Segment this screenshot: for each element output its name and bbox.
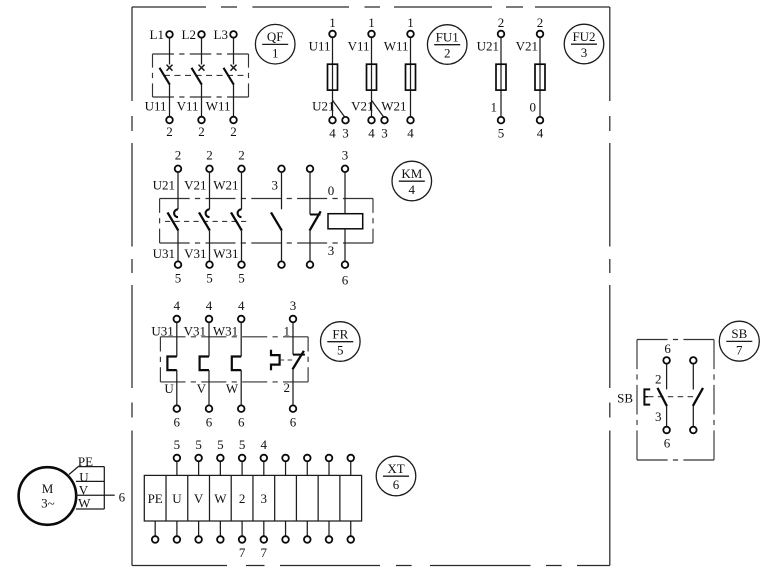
svg-text:1: 1 [284,323,291,338]
svg-text:W: W [214,491,227,506]
svg-text:6: 6 [119,489,126,504]
component label circle QF/1 [255,24,295,64]
terminal (wire 2) of fuse FU2-2 [537,15,544,37]
label wire 1 at FU2 [491,100,498,115]
terminal (wire 6) of FR heater 3 [238,405,245,429]
wire into KM main contact 1 [177,173,179,210]
label U21 at FU1 [312,99,334,114]
label U21 at KM [153,178,175,193]
svg-text:U21: U21 [312,99,334,114]
SB button actuator [644,389,650,404]
terminal W11 of QF (wire 2) [230,117,237,139]
wire through fuse FU2-1 [500,38,502,117]
branch wire at FU1-2 bottom [372,100,384,117]
top terminal of SB NO contact [690,357,697,364]
terminal (wire 2) of fuse FU2-1 [498,15,505,37]
KM main contact 2 [199,209,210,230]
svg-text:V21: V21 [184,178,206,193]
QF linkage (dashed mechanical link) [164,74,248,76]
svg-text:4: 4 [238,298,245,313]
svg-text:W31: W31 [213,246,238,261]
motor lead label PE [78,454,93,469]
terminal 1 of fuse FU1-3 [407,15,414,37]
svg-text:PE: PE [78,454,93,469]
svg-text:4: 4 [174,298,181,313]
label wire 3 at KM aux NO [272,178,279,193]
component label circle KM/4 [392,161,432,201]
XT top terminal 8 [304,455,311,476]
label V11 at FU1 [348,39,370,54]
wire L3 to QF pole 3 [233,38,235,64]
motor lead label V [79,482,89,497]
svg-text:V21: V21 [351,99,373,114]
svg-text:1: 1 [407,15,414,30]
svg-text:5: 5 [206,270,213,285]
wire into FR heater 1 [176,323,178,357]
svg-text:V: V [194,491,204,506]
svg-text:V11: V11 [348,39,370,54]
svg-text:3: 3 [655,409,662,424]
wire out of KM aux NO contact [281,231,283,261]
svg-text:V: V [197,381,207,396]
svg-text:5: 5 [498,126,505,141]
svg-text:3: 3 [328,243,335,258]
wire into KM aux NC contact [309,173,311,215]
motor lead label W [78,495,91,510]
svg-text:W: W [78,495,91,510]
svg-text:6: 6 [290,415,297,430]
wire out of KM aux NC contact [309,231,311,261]
terminal (wire 5) of KM main pole 3 [238,261,245,285]
control cabinet enclosure border [132,7,610,566]
XT bottom terminal 5 [239,521,246,560]
svg-text:3: 3 [261,491,268,506]
terminal (wire 5) of KM main pole 1 [175,261,182,285]
motor M 3~ [19,467,77,525]
wire through fuse FU1-3 (W11 to W21) [410,38,412,117]
motor terminal table [69,467,104,509]
svg-text:4: 4 [409,182,416,197]
XT top terminal 7 [282,455,289,476]
SB NO contact blade [693,388,703,406]
label wire 2 at FR contact [284,380,291,395]
contactor KM dash-dot outline [160,199,373,244]
label V21 at FU2 [516,39,538,54]
circuit breaker QF dash-dot outline [153,54,249,97]
svg-text:5: 5 [217,437,224,452]
wire out of SB NC contact (wire 3) [655,406,667,426]
XT bottom terminal 6 [261,521,268,560]
svg-text:2: 2 [284,380,291,395]
breaker pole 2 contact [192,65,205,85]
XT bottom terminal 9 [326,521,333,543]
svg-text:V31: V31 [184,323,206,338]
component label circle FU1/2 [427,25,467,65]
label U31 at KM [153,246,175,261]
XT cell label U [172,491,182,506]
wire through fuse FU2-2 [539,38,541,117]
label V at FR [197,381,207,396]
XT top terminal 3 [195,437,202,475]
wire into KM aux NO contact [281,173,283,210]
wire L2 to QF pole 2 [201,38,203,64]
KM main contact 3 [231,209,242,230]
XT cell label 2 [239,491,246,506]
wire FR heater 3 to motor terminal W [240,370,242,405]
label U11 at FU1 [309,39,331,54]
fuse FU1-3 body [406,64,416,90]
wire into FR NC contact [292,323,294,355]
KM main contact 1 [168,209,179,230]
wire QF pole 2 to terminal V11 [201,85,203,117]
FR NC contact [293,351,305,370]
wire through fuse FU1-2 (V11 to V21) [371,38,373,117]
label wire 0 at KM coil [328,183,335,198]
terminal (wire 4) of FU1-1 [329,117,336,141]
svg-text:5: 5 [239,437,246,452]
FR heater element 3 [232,357,241,371]
wire into FR heater 2 [208,323,210,357]
svg-text:FU1: FU1 [436,29,459,44]
terminal of KM aux NO contact [278,166,285,173]
svg-text:4: 4 [407,126,414,141]
svg-text:6: 6 [206,415,213,430]
svg-text:4: 4 [368,126,375,141]
terminal (wire 6) of FR heater 2 [206,405,213,429]
svg-text:V21: V21 [516,39,538,54]
wire L1 to QF pole 1 [169,38,171,64]
terminal L2 of QF [182,27,205,42]
svg-text:4: 4 [261,437,268,452]
XT bottom terminal 7 [282,521,289,543]
svg-text:2: 2 [239,491,246,506]
svg-text:1: 1 [272,45,279,60]
terminal (wire 5) of KM main pole 2 [206,261,213,285]
label W at FR [226,381,239,396]
terminal (wire 4) of FU1-3 [407,117,414,141]
terminal (wire 4) of FU1-2 [368,117,375,141]
svg-text:2: 2 [230,124,237,139]
svg-text:FU2: FU2 [572,29,595,44]
svg-text:U31: U31 [153,246,175,261]
terminal L1 of QF [150,27,173,42]
terminal (wire 6) bottom of SB NC contact [663,427,670,451]
XT bottom terminal 3 [195,521,202,543]
terminal U11 of QF (wire 2) [166,117,173,139]
svg-text:3: 3 [290,298,297,313]
svg-text:2: 2 [655,372,662,387]
svg-text:W11: W11 [206,99,231,114]
svg-text:6: 6 [174,415,181,430]
breaker pole 1 contact [160,65,173,85]
svg-text:4: 4 [329,126,336,141]
XT top terminal 5 [239,437,246,475]
wire into KM main contact 3 [241,173,243,210]
terminal (wire 6) of KM coil [342,261,349,287]
KM auxiliary NC contact [310,211,321,230]
svg-text:2: 2 [175,148,182,163]
svg-text:6: 6 [238,415,245,430]
svg-text:4: 4 [537,126,544,141]
svg-text:W31: W31 [213,323,238,338]
terminal V11 of QF (wire 2) [198,117,205,139]
svg-text:1: 1 [329,15,336,30]
svg-text:2: 2 [444,46,451,61]
fuse FU1-2 body [367,64,377,90]
svg-text:7: 7 [261,545,268,560]
svg-text:5: 5 [174,437,181,452]
svg-text:L2: L2 [182,27,196,42]
terminal L3 of QF [214,27,237,42]
wire QF pole 3 to terminal W11 [233,85,235,117]
svg-text:PE: PE [148,491,163,506]
XT cell label V [194,491,204,506]
fuse FU2-2 body [535,64,545,90]
svg-text:U: U [172,491,182,506]
FR heater element 2 [200,357,209,371]
branch wire at FU1-1 bottom [333,100,345,117]
wire into FR heater 3 [240,323,242,357]
SB linkage (dashed mechanical link) [648,396,697,398]
svg-text:4: 4 [206,298,213,313]
svg-text:2: 2 [238,148,245,163]
fuse FU2-1 body [496,64,506,90]
XT top terminal 4 [217,437,224,475]
label wire 3 below KM coil [328,243,335,258]
svg-text:U: U [164,381,174,396]
label W21 at KM [213,178,238,193]
wire into KM main contact 2 [209,173,211,210]
XT bottom terminal 2 [174,521,181,543]
svg-text:SB: SB [731,326,747,341]
fuse FU1-1 body [328,64,338,90]
component label circle SB/7 [719,321,759,361]
label U31 at FR [151,323,173,338]
svg-text:3: 3 [342,126,349,141]
svg-text:5: 5 [238,270,245,285]
svg-text:L3: L3 [214,27,228,42]
push button station SB dash-dot outline [637,340,714,461]
svg-text:M: M [42,481,54,496]
XT top terminal 6 [261,437,268,475]
label W11 at FU1 [384,39,409,54]
KM coil [328,214,363,229]
FR trip dashed link [280,359,294,361]
label V11 at QF [177,99,199,114]
label V21 at FU1 [351,99,373,114]
breaker pole 3 contact [224,65,237,85]
svg-text:3~: 3~ [41,496,55,511]
wire KM main contact 2 to V31 [209,231,211,261]
component label circle FR/5 [321,322,361,362]
label W31 at KM [213,246,238,261]
svg-text:3: 3 [581,45,588,60]
SB NC contact blade [658,388,667,406]
bottom terminal of KM aux NO contact [278,261,285,268]
terminal (wire 4) of FR heater 3 [238,298,245,322]
wire into SB NO contact [692,364,694,389]
XT cell label PE [148,491,163,506]
component label circle FU2/3 [564,24,604,64]
svg-text:5: 5 [195,437,202,452]
wire QF pole 1 to terminal U11 [169,85,171,117]
FR trip actuator symbol [271,350,280,371]
svg-text:SB: SB [617,390,633,405]
terminal (wire 2) of KM main pole 1 [175,148,182,172]
wire into KM coil [344,173,346,214]
svg-text:XT: XT [387,461,404,476]
wire out of SB NO contact [692,406,694,427]
terminal (wire 6) top of SB NC contact [663,341,671,364]
svg-text:W: W [226,381,239,396]
svg-text:5: 5 [337,343,344,358]
svg-text:U21: U21 [153,178,175,193]
FR heater element 1 [167,357,176,371]
terminal 1 of fuse FU1-2 [368,15,375,37]
wire FR heater 2 to motor terminal V [208,370,210,405]
svg-text:3: 3 [381,126,388,141]
XT bottom terminal 10 [347,521,354,543]
XT bottom terminal 8 [304,521,311,543]
label V21 at KM [184,178,206,193]
wire into SB NC contact (wire 2) [655,364,667,389]
terminal (wire 5) of FU2-1 [498,117,505,141]
svg-text:3: 3 [342,148,349,163]
XT bottom terminal 4 [217,521,224,543]
branch terminal (wire 3) of FU1-2 [381,117,388,141]
svg-text:U21: U21 [477,39,499,54]
svg-text:U11: U11 [145,99,167,114]
label U11 at QF [145,99,167,114]
terminal (wire 4) of FR heater 1 [174,298,181,322]
svg-text:2: 2 [498,15,505,30]
svg-text:L1: L1 [150,27,164,42]
svg-text:2: 2 [537,15,544,30]
svg-text:2: 2 [198,124,205,139]
label V31 at FR [184,323,206,338]
svg-text:1: 1 [368,15,375,30]
XT cell label W [214,491,227,506]
svg-text:0: 0 [328,183,335,198]
terminal block XT body [144,475,361,521]
bottom terminal of SB NO contact [690,427,697,434]
svg-text:QF: QF [267,29,284,44]
KM auxiliary NO contact [271,212,282,230]
svg-text:W21: W21 [381,99,406,114]
svg-text:7: 7 [736,342,743,357]
motor lead label U [79,469,89,484]
branch terminal (wire 3) of FU1-1 [342,117,349,141]
label U21 at FU2 [477,39,499,54]
terminal of KM aux NC contact [307,166,314,173]
wire out of FR NC contact [292,369,294,405]
svg-text:U11: U11 [309,39,331,54]
svg-text:6: 6 [664,436,671,451]
label W21 at FU1 [381,99,406,114]
label U at FR [164,381,174,396]
svg-text:V31: V31 [184,246,206,261]
XT top terminal 9 [326,455,333,476]
svg-text:5: 5 [175,270,182,285]
label W31 at FR [213,323,238,338]
svg-text:W21: W21 [213,178,238,193]
svg-text:6: 6 [342,272,349,287]
bottom terminal of KM aux NC contact [307,261,314,268]
wire through fuse FU1-1 (U11 to U21) [332,38,334,117]
terminal (wire 2) of KM main pole 3 [238,148,245,172]
svg-text:V11: V11 [177,99,199,114]
svg-text:U31: U31 [151,323,173,338]
svg-text:7: 7 [239,545,246,560]
terminal (wire 3) of KM coil [342,148,349,172]
wire KM main contact 1 to U31 [177,231,179,261]
motor cable wire 6 [104,489,125,504]
XT cell label 3 [261,491,268,506]
terminal (wire 3) of FR contact [290,298,297,322]
label wire 0 at FU2 [530,100,537,115]
label W11 at QF [206,99,231,114]
KM linkage (dashed mechanical link) [165,220,247,222]
svg-text:W11: W11 [384,39,409,54]
svg-text:0: 0 [530,100,537,115]
XT top terminal 10 [347,455,354,476]
label SB [617,390,633,405]
svg-text:3: 3 [272,178,279,193]
XT top terminal 2 [174,437,181,475]
component label circle XT/6 [376,456,416,496]
svg-text:2: 2 [206,148,213,163]
label wire 1 at FR contact [284,323,291,338]
svg-text:6: 6 [393,477,400,492]
wire KM main contact 3 to W31 [241,231,243,261]
terminal (wire 2) of KM main pole 2 [206,148,213,172]
svg-text:6: 6 [664,341,671,356]
XT bottom terminal 1 [152,521,159,543]
label V31 at KM [184,246,206,261]
terminal (wire 4) of FR heater 2 [206,298,213,322]
terminal (wire 6) of FR heater 1 [174,405,181,429]
svg-text:2: 2 [166,124,173,139]
terminal 1 of fuse FU1-1 [329,15,336,37]
thermal relay FR dash-dot outline [160,337,308,382]
wire FR heater 1 to motor terminal U [176,370,178,405]
svg-text:KM: KM [401,166,422,181]
wire out of KM coil [344,229,346,261]
terminal (wire 4) of FU2-2 [537,117,544,141]
svg-text:FR: FR [332,326,348,341]
svg-text:1: 1 [491,100,498,115]
terminal (wire 6) of FR contact [290,405,297,429]
